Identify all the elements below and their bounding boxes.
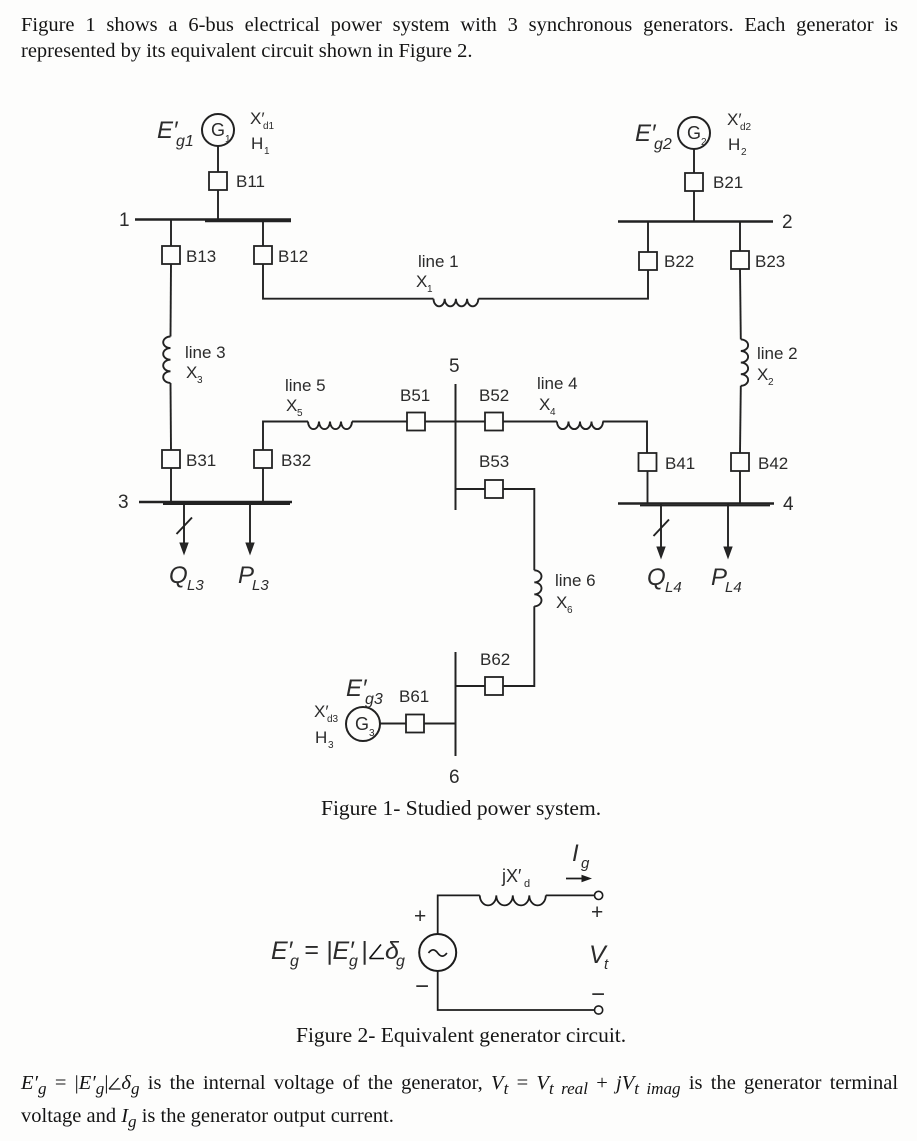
wire G1 to B11 — [217, 146, 219, 172]
load arrow QL4 — [657, 504, 665, 559]
label H1 — [251, 134, 270, 157]
label line 6 — [555, 571, 596, 616]
svg-text:G: G — [211, 120, 225, 140]
svg-text:2: 2 — [782, 212, 793, 233]
bus 4 — [618, 504, 774, 506]
label B41 — [665, 454, 695, 473]
svg-text:1: 1 — [119, 210, 130, 231]
breaker B22 — [639, 252, 657, 270]
svg-text:line 1: line 1 — [418, 252, 459, 271]
polarity plus right — [591, 901, 603, 924]
svg-text:g1: g1 — [176, 133, 194, 150]
label G2 — [687, 123, 707, 148]
label jX'd — [501, 866, 530, 890]
wire B12 to line 1 — [263, 264, 434, 299]
label E'g formula — [271, 936, 405, 970]
breaker B62 — [485, 677, 503, 695]
polarity minus right — [591, 981, 605, 1008]
breaker B51 — [407, 413, 425, 431]
svg-text:−: − — [591, 981, 605, 1008]
svg-text:B23: B23 — [755, 252, 785, 271]
inductor line 5 — [308, 422, 352, 430]
inductor line 1 — [434, 299, 479, 307]
inductor line 3 — [163, 337, 170, 383]
bottom paragraph — [21, 1070, 898, 1135]
svg-text:X: X — [186, 363, 197, 382]
svg-text:=: = — [304, 936, 319, 964]
wire line 1 to B22 — [478, 270, 648, 299]
svg-text:d3: d3 — [327, 714, 339, 725]
node bus 6 label — [449, 767, 460, 788]
label line 1 — [416, 252, 459, 295]
wire B52 to line 4 — [503, 421, 557, 423]
label E'g1 — [157, 117, 194, 150]
svg-text:+: + — [414, 905, 426, 928]
label H2 — [728, 135, 747, 158]
svg-text:4: 4 — [783, 494, 794, 515]
wire line3 coil to B31 — [170, 383, 173, 450]
label B52 — [479, 386, 509, 405]
svg-text:g2: g2 — [654, 136, 672, 153]
load switch slash QL3 — [177, 518, 193, 535]
svg-text:B53: B53 — [479, 452, 509, 471]
bus 6 — [455, 652, 457, 756]
wire line6 coil to B62 — [503, 606, 534, 686]
label X'd1 — [250, 109, 275, 132]
wire source top — [438, 895, 480, 934]
svg-text:B21: B21 — [713, 173, 743, 192]
svg-text:6: 6 — [567, 605, 573, 616]
label E'g3 — [346, 675, 383, 708]
wire B13 to line3 coil — [170, 264, 173, 337]
label Vt — [589, 941, 609, 973]
svg-text:H: H — [728, 135, 740, 154]
label Ig — [572, 840, 590, 872]
svg-text:jX′: jX′ — [501, 866, 522, 886]
svg-text:g: g — [349, 953, 358, 970]
node bus 1 label — [119, 210, 130, 231]
svg-text:5: 5 — [297, 408, 303, 419]
svg-text:B62: B62 — [480, 650, 510, 669]
wire bus5 to B53 — [456, 488, 486, 490]
top paragraph — [21, 13, 898, 64]
voltage source U1 — [419, 934, 456, 971]
wire source bottom — [438, 971, 595, 1010]
svg-text:H: H — [251, 134, 263, 153]
svg-text:4: 4 — [550, 407, 556, 418]
wire B41 to bus 4 — [647, 471, 649, 504]
bottom terminal node — [595, 1006, 603, 1014]
wire B61 to bus 6 — [424, 723, 456, 725]
svg-text:+: + — [591, 901, 603, 924]
svg-text:g: g — [290, 953, 299, 970]
figure 2 caption — [296, 1023, 626, 1048]
svg-text:t: t — [604, 956, 609, 973]
bus 5 — [455, 384, 457, 510]
bus 2 — [618, 220, 773, 223]
wire B53 to line 6 — [503, 489, 534, 570]
svg-text:line 4: line 4 — [537, 374, 578, 393]
svg-text:B11: B11 — [236, 172, 265, 191]
svg-text:d2: d2 — [740, 122, 752, 133]
wire G3 to B61 — [380, 723, 406, 725]
label G3 — [355, 714, 375, 739]
label H3 — [315, 728, 334, 751]
svg-text:L3: L3 — [252, 577, 269, 594]
source sine symbol — [429, 950, 447, 956]
svg-text:g: g — [581, 855, 590, 872]
load switch slash QL4 — [654, 520, 670, 537]
label PL3 — [238, 562, 269, 594]
load arrow PL3 — [246, 502, 254, 554]
svg-text:3: 3 — [328, 740, 334, 751]
svg-text:B41: B41 — [665, 454, 695, 473]
breaker B23 — [731, 251, 749, 269]
label B23 — [755, 252, 785, 271]
svg-text:2: 2 — [741, 147, 747, 158]
polarity minus left — [415, 973, 429, 1000]
breaker B11 — [209, 172, 227, 190]
label PL4 — [711, 564, 742, 596]
wire B23 to line2 coil — [739, 269, 742, 339]
wire coil to top terminal — [546, 894, 595, 896]
svg-text:B61: B61 — [399, 687, 429, 706]
label B51 — [400, 386, 430, 405]
label QL4 — [647, 564, 682, 596]
label line 2 — [757, 344, 798, 388]
wire bus1 to B12 — [262, 220, 264, 247]
svg-text:X: X — [416, 272, 427, 291]
breaker B31 — [162, 450, 180, 468]
load arrow QL3 — [180, 502, 188, 554]
svg-text:1: 1 — [264, 146, 270, 157]
svg-text:L3: L3 — [187, 577, 204, 594]
svg-text:G: G — [355, 714, 369, 734]
svg-text:L4: L4 — [665, 579, 682, 596]
breaker B52 — [485, 413, 503, 431]
breaker B13 — [162, 246, 180, 264]
node bus 4 label — [783, 494, 794, 515]
svg-text:B52: B52 — [479, 386, 509, 405]
svg-text:line 2: line 2 — [757, 344, 798, 363]
inductor line 6 — [534, 570, 541, 606]
wire bus2 to B23 — [739, 222, 741, 252]
svg-text:B12: B12 — [278, 247, 308, 266]
label G1 — [211, 120, 231, 145]
label B32 — [281, 451, 311, 470]
wire B32 to line 5 — [263, 422, 308, 451]
generator G1 — [202, 114, 234, 146]
breaker B21 — [685, 173, 703, 191]
node bus 2 label — [782, 212, 793, 233]
svg-text:line 6: line 6 — [555, 571, 596, 590]
svg-text:L4: L4 — [725, 579, 742, 596]
wire line 4 to B41 — [603, 422, 647, 454]
svg-text:6: 6 — [449, 767, 460, 788]
svg-text:2: 2 — [768, 377, 774, 388]
wire B42 to bus 4 — [739, 471, 741, 504]
generator G2 — [678, 117, 710, 149]
svg-text:|: | — [361, 937, 368, 965]
wire G2 to B21 — [693, 149, 695, 173]
svg-text:g: g — [396, 953, 405, 970]
label B22 — [664, 252, 694, 271]
svg-text:−: − — [415, 973, 429, 1000]
svg-text:B51: B51 — [400, 386, 430, 405]
svg-text:1: 1 — [225, 134, 231, 145]
wire B22 to bus 2 — [647, 222, 649, 252]
svg-text:d: d — [524, 878, 530, 890]
wire B21 to bus 2 — [693, 191, 695, 222]
wire B62 to bus 6 — [456, 685, 486, 687]
svg-text:H: H — [315, 728, 327, 747]
wire B51 to bus 5 — [425, 421, 485, 423]
wire bus1 to B13 — [170, 220, 172, 247]
label B62 — [480, 650, 510, 669]
breaker B61 — [406, 715, 424, 733]
svg-text:d1: d1 — [263, 121, 275, 132]
node bus 5 label — [449, 356, 460, 377]
label B13 — [186, 247, 216, 266]
node bus 3 label — [118, 492, 129, 513]
svg-text:2: 2 — [701, 137, 707, 148]
load arrow PL4 — [724, 504, 732, 559]
svg-text:3: 3 — [118, 492, 129, 513]
breaker B41 — [639, 453, 657, 471]
label line 4 — [537, 374, 578, 418]
label E'g2 — [635, 120, 672, 153]
label B12 — [278, 247, 308, 266]
top terminal node — [595, 891, 603, 899]
breaker B12 — [254, 246, 272, 264]
figure 1 caption — [321, 796, 601, 821]
inductor line 2 — [741, 339, 748, 385]
inductor jX'd — [480, 895, 546, 905]
svg-text:X: X — [286, 396, 297, 415]
svg-text:3: 3 — [369, 728, 375, 739]
bus 3 — [139, 502, 292, 504]
svg-text:Q: Q — [169, 562, 188, 589]
generator G3 — [346, 707, 380, 741]
FIG2 — [419, 875, 603, 1014]
label B53 — [479, 452, 509, 471]
svg-text:B22: B22 — [664, 252, 694, 271]
svg-text:B13: B13 — [186, 247, 216, 266]
svg-text:B31: B31 — [186, 451, 216, 470]
inductor line 4 — [557, 422, 603, 430]
label B42 — [758, 454, 788, 473]
wire line5 coil to B51 — [352, 421, 407, 423]
label B61 — [399, 687, 429, 706]
label line 5 — [285, 376, 326, 419]
wire line2 coil to B42 — [739, 386, 742, 453]
label X'd2 — [727, 110, 752, 133]
wire B31 to bus 3 — [170, 468, 172, 502]
label B11 — [236, 172, 265, 191]
svg-text:I: I — [572, 840, 579, 867]
svg-text:B42: B42 — [758, 454, 788, 473]
label B21 — [713, 173, 743, 192]
label QL3 — [169, 562, 204, 594]
bus 1 — [135, 220, 291, 222]
label B31 — [186, 451, 216, 470]
svg-text:line 5: line 5 — [285, 376, 326, 395]
svg-text:line 3: line 3 — [185, 343, 226, 362]
svg-text:B32: B32 — [281, 451, 311, 470]
label line 3 — [185, 343, 226, 386]
svg-text:1: 1 — [427, 284, 433, 295]
breaker B32 — [254, 450, 272, 468]
svg-text:X: X — [539, 395, 550, 414]
svg-text:G: G — [687, 123, 701, 143]
breaker B42 — [731, 453, 749, 471]
svg-text:Q: Q — [647, 564, 666, 591]
polarity plus left — [414, 905, 426, 928]
svg-text:g3: g3 — [365, 691, 383, 708]
svg-text:X: X — [556, 593, 567, 612]
wire bus3 to B32 — [262, 468, 264, 502]
svg-text:3: 3 — [197, 375, 203, 386]
wire B11 to bus 1 — [217, 190, 219, 220]
breaker B53 — [485, 480, 503, 498]
svg-text:5: 5 — [449, 356, 460, 377]
label X'd3 — [314, 702, 339, 725]
svg-text:X: X — [757, 365, 768, 384]
current arrow Ig — [566, 875, 592, 883]
